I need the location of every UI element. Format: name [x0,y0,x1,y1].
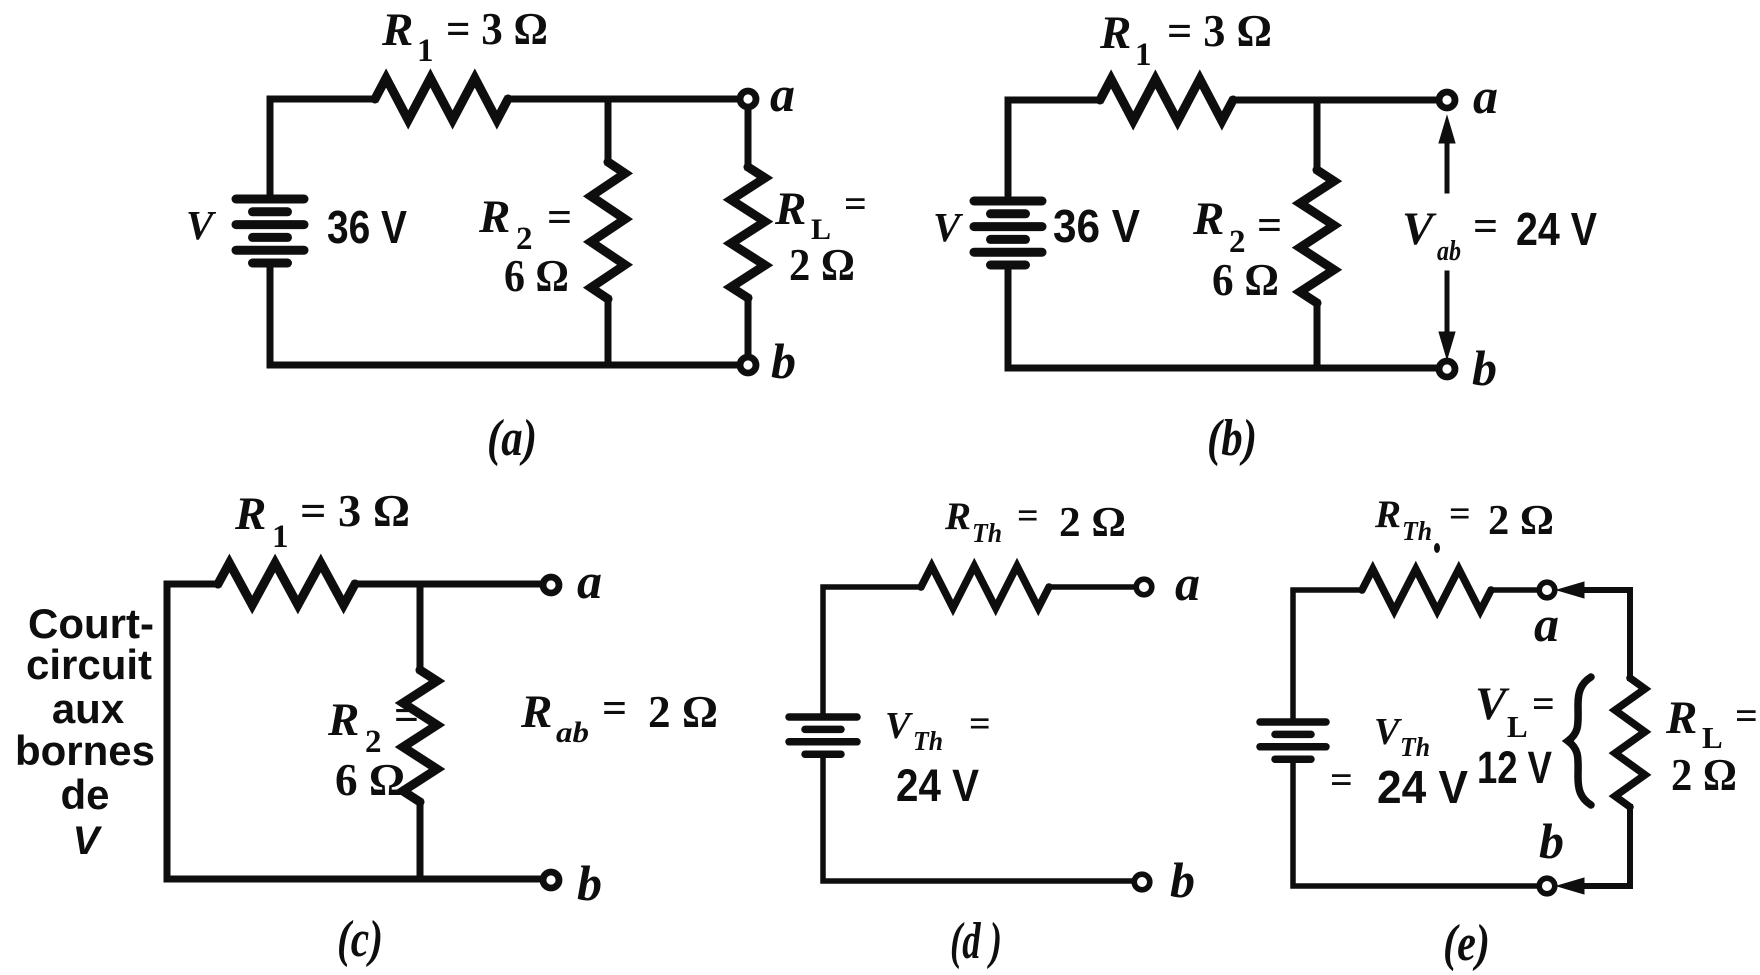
svg-text:circuit: circuit [26,641,152,688]
wire from RTh to terminal a (e) [1491,587,1539,593]
resistor RTh (d) [921,566,1049,608]
svg-text:V: V [933,204,964,250]
svg-text:6 Ω: 6 Ω [335,754,405,805]
svg-text:24 V: 24 V [1516,203,1597,255]
svg-text:6 Ω: 6 Ω [1212,254,1279,305]
svg-text:2 Ω: 2 Ω [1671,749,1737,800]
svg-text:b: b [577,855,602,911]
battery VTh (e) [1260,718,1326,726]
svg-text:a: a [770,66,795,122]
wire top-left from battery to RTh, circuit (e) [1293,590,1362,722]
svg-text:(b): (b) [1207,410,1257,467]
svg-text:=: = [1532,681,1555,726]
wire from battery to bottom rail (d) [823,754,1133,881]
terminal a (a) [740,91,756,107]
svg-text:=: = [394,691,419,740]
svg-text:ab: ab [556,716,589,749]
resistor R1 (a) [375,78,508,120]
resistor RL (e) [1615,678,1645,807]
wire R2 branch top (a) [605,99,612,162]
svg-text:aux: aux [52,685,125,732]
wire R2 branch top (c) [417,584,424,670]
svg-text:V: V [186,202,217,248]
circuit (a) [186,4,867,467]
svg-text:(a): (a) [487,410,537,467]
wire from RTh to terminal a (d) [1049,584,1135,590]
circuit (b) [933,6,1597,467]
svg-text:bornes: bornes [15,727,155,774]
svg-text:=: = [602,684,627,733]
svg-text:b: b [1170,852,1195,908]
battery VTh (d) [789,713,857,721]
svg-text:2 Ω: 2 Ω [1488,498,1554,544]
svg-text:R: R [234,488,266,540]
svg-text:=: = [1473,202,1498,251]
wire from R1 to terminal a (c) [355,581,543,588]
terminal b (e) [1539,878,1555,894]
svg-text:a: a [1175,555,1200,611]
svg-text:(c): (c) [337,911,383,968]
terminal b (b) [1439,361,1455,377]
wire RL branch top (a) [745,108,752,167]
svg-text:36 V: 36 V [1053,200,1140,252]
svg-text:2 Ω: 2 Ω [648,686,718,737]
svg-text:V: V [1475,678,1510,730]
wire from battery to bottom rail (b) [1008,265,1439,368]
wire R2 branch bottom (c) [417,802,424,879]
resistor R1 (b) [1100,79,1233,121]
terminal a (d) [1136,579,1152,595]
svg-text:R: R [944,495,971,538]
brace VL (e) [1568,677,1591,805]
svg-text:Th: Th [1400,732,1430,762]
battery V (a) [236,195,304,204]
svg-text:=: = [1735,693,1758,738]
svg-text:=: = [969,703,991,745]
resistor R1 (c) [218,563,355,605]
wire right branch top with arrow into terminal a (e) [1581,590,1630,678]
svg-text:24 V: 24 V [896,760,979,811]
svg-text:24 V: 24 V [1377,761,1468,813]
svg-text:12 V: 12 V [1477,742,1552,793]
svg-text:Th: Th [1402,516,1432,546]
svg-text:6 Ω: 6 Ω [504,250,569,301]
svg-text:R: R [1665,692,1697,744]
svg-text:1: 1 [417,33,434,69]
svg-text:b: b [771,333,796,389]
svg-text:=: = [1017,495,1039,537]
wire top-left to R1 (c) [167,581,218,588]
wire R2 branch bottom (b) [1314,303,1321,368]
svg-text:V: V [885,705,913,747]
svg-text:36 V: 36 V [327,201,407,253]
terminal a (e) [1539,582,1555,598]
svg-text:(d ): (d ) [950,913,1002,970]
wire R2 branch bottom (a) [605,299,612,365]
svg-text:2 Ω: 2 Ω [789,239,855,290]
svg-text:Court-: Court- [28,600,154,647]
svg-text:=: = [844,181,867,226]
terminal b (a) [740,357,756,373]
svg-text:b: b [1472,340,1497,396]
svg-text:= 3 Ω: = 3 Ω [1167,6,1272,56]
svg-text:V: V [1402,203,1437,255]
svg-text:Th: Th [913,726,943,756]
svg-text:R: R [1374,493,1401,536]
svg-text:R: R [478,191,510,243]
svg-text:L: L [1507,709,1528,744]
svg-text:a: a [577,553,602,609]
arrow Vab lower (b) [1445,273,1450,333]
svg-text:a: a [1473,68,1498,124]
wire from R1 to terminal a [508,96,740,103]
resistor R2 (a) [591,162,625,299]
svg-text:a: a [1534,596,1559,652]
svg-text:de: de [60,771,109,818]
terminal a (b) [1439,92,1455,108]
wire short-circuit left side, circuit (c) [164,584,171,879]
wire from R1 to terminal a (b) [1233,97,1439,104]
wire bottom rail (c) [167,876,543,883]
arrow Vab upper (b) [1445,143,1450,191]
svg-text:1: 1 [1135,37,1152,73]
resistor RTh (e) [1362,569,1491,611]
wire from battery to bottom rail (e) [1293,759,1539,886]
svg-text:1: 1 [272,519,289,555]
wire right branch bottom with arrow into terminal b (e) [1581,807,1630,886]
circuit (e) [1260,493,1758,972]
svg-text:ab: ab [1437,236,1461,267]
svg-text:=: = [547,193,572,242]
svg-text:R: R [381,4,413,56]
svg-text:R: R [1192,193,1224,245]
svg-text:= 3 Ω: = 3 Ω [300,486,410,536]
wire top-left from battery to RTh, circuit (d) [823,587,921,717]
svg-text:R: R [520,686,552,738]
svg-text:R: R [1099,7,1131,59]
circuit (d) [789,495,1200,970]
svg-text:R: R [327,694,359,746]
wire RL branch bottom (a) [745,298,752,356]
svg-text:=: = [1330,757,1353,802]
svg-text:=: = [1449,493,1471,535]
svg-text:(e): (e) [1443,915,1490,972]
wire from battery to bottom rail (a) [270,263,740,365]
wire top-left from battery to R1, circuit (a) [270,99,375,199]
circuit (c) [15,486,718,968]
svg-text:V: V [73,819,103,863]
resistor R2 (b) [1300,170,1334,303]
resistor R2 (c) [403,670,437,802]
terminal b (c) [543,872,559,888]
svg-text:Th: Th [972,518,1002,548]
svg-text:V: V [1374,711,1402,753]
terminal a (c) [543,577,559,593]
resistor RL (a) [731,167,765,298]
svg-text:=: = [1257,201,1282,250]
svg-text:2 Ω: 2 Ω [1059,500,1126,546]
wire top-left from battery to R1, circuit (b) [1008,100,1100,201]
battery V (b) [974,197,1042,206]
wire R2 branch top (b) [1314,100,1321,170]
svg-text:b: b [1539,813,1564,869]
svg-text:= 3 Ω: = 3 Ω [446,4,548,54]
svg-text:R: R [774,183,806,235]
terminal b (d) [1134,874,1150,890]
